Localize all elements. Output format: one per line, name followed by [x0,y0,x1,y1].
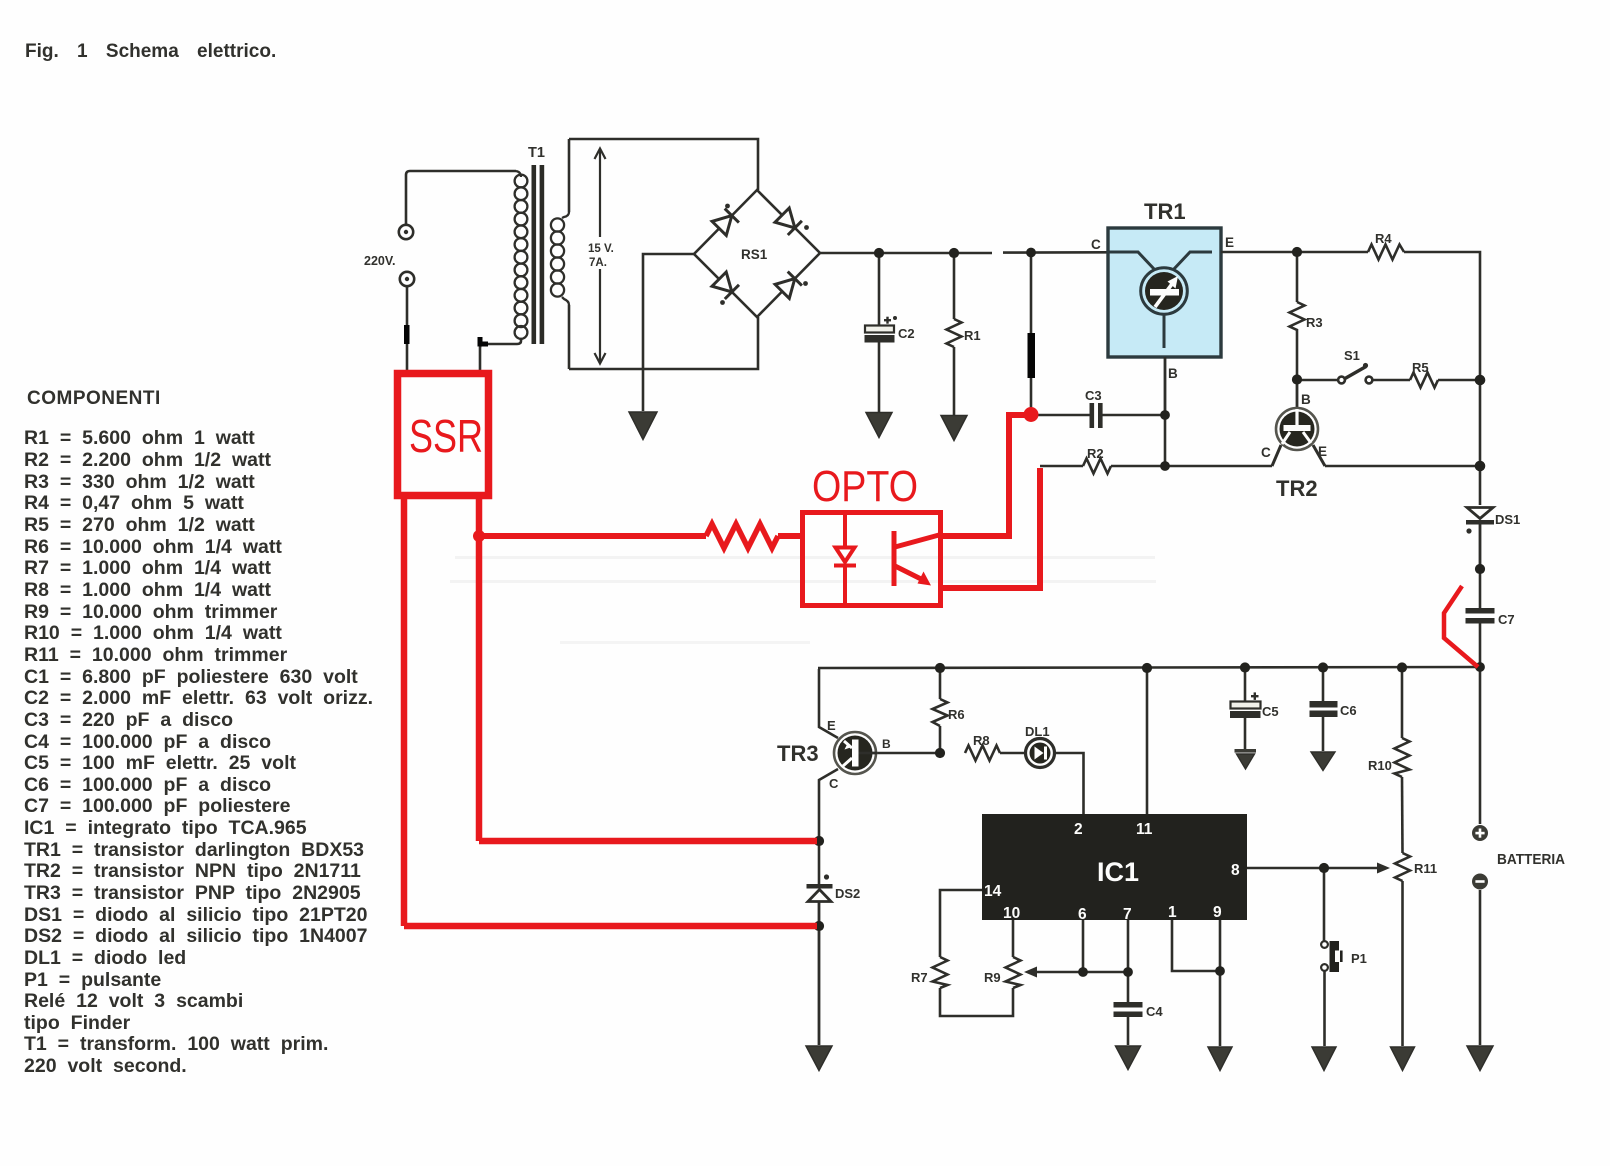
svg-text:T1: T1 [528,145,545,161]
wire R7 bottom loop to R9 bottom [940,988,1013,1016]
resistor R8 [965,746,1000,761]
node rail / pin 11 [1142,663,1152,673]
svg-text:TR3: TR3 [777,741,819,766]
wire TR1 base below box [1164,357,1167,415]
red wire to DS2 cathode node [404,923,817,930]
node C3 / TR1 base [1160,410,1170,420]
node wiper line / pin 6 [1078,967,1088,977]
battery plus terminal [1472,825,1488,841]
svg-text:1: 1 [1168,904,1177,921]
wire R11 to ground [1401,881,1404,1046]
OPTO internal phototransistor [894,531,939,586]
wire TR3 emitter leg [819,669,838,738]
node rail / C7 / battery [1475,662,1485,672]
wire C3 left [1036,414,1090,417]
wire R1 branch [953,253,956,319]
ground symbol (DS2) [806,1046,832,1071]
svg-text:TR2: TR2 [1276,476,1318,501]
LED DL1 [1026,739,1055,768]
polarity mark C5 [1251,692,1259,700]
wire TR1 base node down to R2 line [1164,415,1167,466]
node R5 / right rail [1475,375,1486,386]
wire rail to IC1 pin 11 [1146,668,1149,814]
hand-drawn marker corner near SSR [480,337,488,344]
svg-text:E: E [1318,444,1327,459]
transistor TR3 (2N2905) [834,732,877,774]
svg-text:R5 = 270 ohm 1/2 watt: R5 = 270 ohm 1/2 watt [24,514,255,536]
bridge rectifier RS1 diamond [694,190,820,317]
wire C2 branch [878,253,881,325]
ground symbol (C2) [866,413,892,438]
svg-text:R10: R10 [1368,758,1392,773]
svg-text:TR3 = transistor PNP tipo 2N29: TR3 = transistor PNP tipo 2N2905 [24,882,361,904]
ground symbol (C5) [1235,749,1257,769]
wire C5 branch [1244,668,1247,701]
node rail / R10 [1397,662,1407,672]
svg-text:C5 = 100 mF elettr. 25 volt: C5 = 100 mF elettr. 25 volt [24,752,296,774]
transformer T1 primary winding [515,171,528,339]
wire battery minus to ground [1479,890,1482,1045]
node R1 [949,248,959,258]
svg-text:220 volt second.: 220 volt second. [24,1055,187,1077]
svg-text:R9 = 10.000 ohm trimmer: R9 = 10.000 ohm trimmer [24,601,278,623]
svg-text:R7 = 1.000 ohm 1/4 watt: R7 = 1.000 ohm 1/4 watt [24,557,271,579]
node wiper line / pin 7 [1123,967,1133,977]
wire TR3 collector leg [819,769,838,884]
svg-text:R10 = 1.000 ohm 1/4 watt: R10 = 1.000 ohm 1/4 watt [24,622,282,644]
node TR1 E / R3 [1292,247,1302,257]
polarity mark DS2 [824,874,829,879]
red wire SSR left output [401,499,408,926]
polarity mark D4 [803,281,808,286]
node pin 1 / pin 9 [1215,966,1225,976]
wire R3 bottom to S1 node [1296,334,1299,379]
resistor R3 [1290,302,1305,334]
polarity mark C2 [884,316,897,324]
svg-text:2: 2 [1074,821,1083,838]
polarity mark DS1 [1466,528,1471,533]
wire pin 8 to R11 wiper [1247,863,1390,874]
wire secondary bottom to rail [568,305,571,369]
svg-text:R11: R11 [1414,861,1437,876]
wire R3 top [1296,252,1299,302]
switch S1 [1338,363,1372,384]
svg-text:Fig. 1 Schema elettrico.: Fig. 1 Schema elettrico. [25,41,276,62]
svg-text:C7 = 100.000 pF poliestere: C7 = 100.000 pF poliestere [24,795,291,817]
resistor R1 [947,319,962,347]
node rail / R6 [935,663,945,673]
svg-text:T1 = transform. 100 watt prim.: T1 = transform. 100 watt prim. [24,1033,328,1055]
svg-text:C2: C2 [898,326,915,341]
svg-text:R3 = 330 ohm 1/2 watt: R3 = 330 ohm 1/2 watt [24,471,255,493]
wire C6 to ground [1322,717,1325,751]
svg-text:DL1 = diodo led: DL1 = diodo led [24,947,186,969]
wire primary bottom to SSR [480,338,521,370]
wire C5 to ground [1244,718,1247,749]
svg-text:R8: R8 [973,733,990,748]
ground symbol (battery) [1467,1046,1493,1071]
svg-text:C1 = 6.800 pF poliestere 630 v: C1 = 6.800 pF poliestere 630 volt [24,666,358,688]
red node dot at C3 branch [1024,407,1039,422]
ground symbol (C6) [1311,752,1335,771]
red wire OPTO collector to C3 node [941,415,1028,536]
resistor R4 [1368,245,1404,260]
red wire SSR to series resistor [479,533,706,539]
pushbutton P1 [1321,941,1343,1046]
svg-text:R5: R5 [1412,360,1429,375]
wire top rail to bridge [569,139,758,190]
wire R5 to right rail [1438,379,1480,382]
svg-text:C: C [1091,237,1101,252]
svg-text:B: B [882,737,891,751]
svg-text:R2: R2 [1087,446,1104,461]
svg-text:DS1 = diodo al silicio tipo 21: DS1 = diodo al silicio tipo 21PT20 [24,904,368,926]
capacitor C7 [1466,608,1495,624]
svg-text:C3 = 220 pF a disco: C3 = 220 pF a disco [24,709,233,731]
svg-text:14: 14 [984,883,1002,900]
svg-text:Relé 12 volt 3 scambi: Relé 12 volt 3 scambi [24,990,243,1012]
svg-text:C6 = 100.000 pF a disco: C6 = 100.000 pF a disco [24,774,271,796]
svg-text:R4: R4 [1375,231,1392,246]
wire pin 7 to C4 [1127,920,1130,1002]
bridge diode D1 (top-left) [712,209,739,236]
red wire resistor to OPTO [778,533,802,539]
diode DS1 [1466,508,1494,570]
svg-text:R11 = 10.000 ohm trimmer: R11 = 10.000 ohm trimmer [24,644,288,666]
transistor TR1 (BDX53 darlington, highlighted module) [1108,228,1221,357]
svg-text:B: B [1301,392,1311,407]
diode DS2 [807,884,833,1045]
red highlight bracket at C7 [1444,586,1478,667]
svg-text:DS1: DS1 [1495,512,1520,527]
svg-text:7A.: 7A. [589,257,607,269]
svg-text:BATTERIA: BATTERIA [1497,851,1565,868]
wire (after scan gap) to TR1 [1003,251,1107,254]
wire pin 14 to R7 [940,890,982,957]
svg-text:15 V.: 15 V. [588,243,614,255]
hand-drawn marker stroke on C3 branch [1028,333,1036,378]
svg-text:tipo Finder: tipo Finder [24,1012,131,1034]
hand-drawn marker stroke on mains wire [404,325,410,344]
wire R10 to R11 [1401,777,1404,853]
OPTO internal LED [834,514,856,604]
svg-text:10: 10 [1003,905,1020,922]
220V terminal upper [399,225,413,239]
svg-text:220V.: 220V. [364,254,396,268]
wire C7 to rail [1479,624,1482,668]
capacitor C6 [1310,701,1338,717]
node bridge+/C2 [874,248,884,258]
wire DL1 to IC1 pin 2 [1056,753,1084,814]
svg-text:R4 = 0,47 ohm 5 watt: R4 = 0,47 ohm 5 watt [24,492,244,514]
transistor TR2 (2N1711) [1272,379,1325,466]
svg-text:IC1: IC1 [1097,857,1139,887]
node DS2 / red wire [814,921,824,931]
node pin 8 / P1 [1319,863,1329,873]
bridge diode D4 (bottom-right) [775,272,802,299]
bridge diode D2 (top-right) [775,208,802,235]
node TR2 emitter / right rail [1475,461,1486,472]
capacitor C5 (electrolytic) [1230,702,1261,719]
svg-text:C4: C4 [1146,1004,1163,1019]
220V terminal lower [400,272,414,286]
red wire OPTO emitter to R2 [941,468,1040,588]
resistor R9 (trimmer) [1006,957,1021,988]
resistor R6 [933,699,948,726]
svg-text:P1: P1 [1351,951,1367,966]
svg-text:C7: C7 [1498,612,1515,627]
svg-text:B: B [1168,366,1178,381]
svg-text:C4 = 100.000 pF a disco: C4 = 100.000 pF a disco [24,731,271,753]
resistor R5 [1410,373,1438,388]
wire pin 9 to ground [1219,920,1222,1046]
resistor R11 (trimmer) [1395,853,1410,881]
capacitor C4 [1114,1002,1143,1017]
polarity mark D3 [720,300,725,305]
IC U1 (IC1 TCA.965) [982,814,1247,920]
svg-text:COMPONENTI: COMPONENTI [27,388,161,409]
wire mains upper terminal to primary [406,171,516,225]
svg-text:9: 9 [1213,904,1222,921]
svg-text:P1 = pulsante: P1 = pulsante [24,969,161,991]
wire C3 right to TR1 base node [1103,414,1166,417]
resistor R2 [1083,459,1111,474]
polarity mark D1 [725,204,730,209]
node TR3 base / R6 / R8 [935,748,945,758]
svg-text:R6: R6 [948,707,965,722]
node DS1 / C7 [1475,564,1485,574]
wire pin 6 down [1082,920,1085,972]
wire TR3 base to R6 node [877,752,940,755]
svg-text:DS2 = diodo al silicio tipo 1N: DS2 = diodo al silicio tipo 1N4007 [24,925,367,947]
ground symbol (C4) [1116,1046,1141,1070]
svg-text:OPTO: OPTO [812,462,918,511]
wire pin 1 to pin 9 net [1172,920,1220,971]
wire C2 to ground [878,343,881,413]
node rail / C6 [1318,662,1328,672]
resistor R10 [1395,738,1410,777]
svg-text:R2 = 2.200 ohm 1/2 watt: R2 = 2.200 ohm 1/2 watt [24,449,271,471]
wire R4 to right corner [1404,252,1480,505]
wire mains lower terminal down to SSR [406,286,409,370]
OPTO emitter arrowhead [918,572,932,586]
wire C4 to ground [1127,1017,1130,1045]
node rail / C5 [1240,662,1250,672]
svg-text:R1: R1 [964,328,981,343]
wire bottom rail to bridge [569,317,758,369]
node R3 / S1 / TR2 base [1292,374,1302,384]
wire P1 branch [1323,868,1326,941]
svg-text:RS1: RS1 [741,247,768,262]
svg-text:C: C [829,776,839,791]
wire R6 bottom [939,726,942,753]
trimmer wiper arrow into R9 [1024,967,1128,978]
svg-text:TR1 = transistor darlington BD: TR1 = transistor darlington BDX53 [24,839,364,861]
svg-text:E: E [1225,235,1234,250]
wire secondary top to rail [568,139,571,212]
svg-text:11: 11 [1136,821,1153,838]
transformer T1 secondary winding [551,212,569,305]
node TR3 collector / red wire [814,836,824,846]
wire R8 to DL1 [1000,752,1024,755]
svg-text:R9: R9 [984,970,1001,985]
wire R2 left [1040,465,1083,468]
svg-text:TR2 = transistor NPN tipo 2N17: TR2 = transistor NPN tipo 2N1711 [24,860,361,882]
optocoupler OPTO box (red annotation) [803,513,941,606]
capacitor C2 (electrolytic) [865,326,895,343]
ground symbol (P1) [1312,1047,1336,1071]
wire lower supply rail [818,667,1480,668]
node TR1 base / R2 line [1160,461,1170,471]
wire TR2 emitter to right rail [1325,465,1480,468]
svg-text:DL1: DL1 [1025,724,1050,739]
wire C3 branch vertical [1030,253,1033,412]
wire DS1 to C7 [1479,569,1482,608]
svg-text:8: 8 [1231,862,1240,879]
wire C6 branch [1322,668,1325,701]
wire R2 to TR2 collector [1111,465,1272,468]
ground symbol (pin 9) [1208,1047,1232,1071]
svg-text:S1: S1 [1344,348,1360,363]
svg-text:C6: C6 [1340,703,1357,718]
wire pin 10 to R9 [1012,920,1015,957]
svg-text:C5: C5 [1262,704,1279,719]
wire bridge plus output to TR1 collector [820,252,992,255]
svg-text:R3: R3 [1306,315,1323,330]
red node dot at SSR output [473,530,485,542]
ground symbol (R1) [941,416,967,441]
scan streak artifacts [450,556,1156,644]
svg-text:DS2: DS2 [835,886,860,901]
capacitor C3 [1090,403,1103,428]
polarity mark D2 [804,225,809,230]
wire bridge minus output to ground [643,254,694,411]
svg-text:C3: C3 [1085,388,1102,403]
wire rail to battery plus [1479,667,1482,824]
wire R1 to ground [953,347,956,415]
secondary rating arrow 15V 7A [595,149,606,364]
transformer T1 core [532,165,545,344]
svg-text:IC1 = integrato tipo TCA.965: IC1 = integrato tipo TCA.965 [24,817,307,839]
svg-text:R1 = 5.600 ohm 1 watt: R1 = 5.600 ohm 1 watt [24,427,255,449]
wire S1 node to switch [1297,379,1338,382]
node C3 branch [1026,248,1036,258]
red wire to TR3 collector [479,838,817,845]
svg-text:C2 = 2.000 mF elettr. 63 volt: C2 = 2.000 mF elettr. 63 volt orizz. [24,687,373,709]
red series resistor [706,524,778,548]
bridge diode D3 (bottom-left) [712,272,739,299]
wire TR1 emitter to R4 and R3 [1221,251,1368,254]
svg-text:C: C [1261,445,1271,460]
wire switch to R5 [1373,379,1411,382]
parts list (component values) [24,427,373,1077]
wire rail to R10 [1401,668,1404,738]
svg-text:E: E [827,718,836,733]
red wire SSR right output [476,499,483,841]
ground symbol (bridge) [629,412,657,440]
svg-text:R6 = 10.000 ohm 1/4 watt: R6 = 10.000 ohm 1/4 watt [24,536,282,558]
resistor R7 [933,957,948,988]
SSR box (red annotation) [398,374,489,496]
label 15 V. [585,237,614,269]
svg-text:SSR: SSR [409,410,483,462]
ground symbol (R11) [1391,1047,1415,1071]
svg-text:R7: R7 [911,970,928,985]
svg-text:R8 = 1.000 ohm 1/4 watt: R8 = 1.000 ohm 1/4 watt [24,579,271,601]
battery minus terminal [1472,874,1488,890]
wire R6 top [939,668,942,699]
svg-text:TR1: TR1 [1144,199,1186,224]
